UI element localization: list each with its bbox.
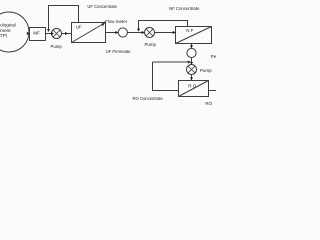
svg-text:MF: MF [33, 30, 40, 35]
svg-text:Permeate: Permeate [211, 54, 216, 59]
svg-text:RO: RO [205, 101, 212, 106]
svg-text:Biological: Biological [0, 22, 16, 27]
svg-text:NF Concentrate: NF Concentrate [169, 6, 200, 11]
svg-text:Pump: Pump [145, 42, 157, 47]
svg-text:UF Permeate: UF Permeate [106, 49, 132, 54]
svg-text:Pump: Pump [51, 44, 63, 49]
svg-text:Pump: Pump [200, 68, 212, 73]
svg-text:UF Concentrate: UF Concentrate [87, 4, 117, 9]
svg-text:R O: R O [188, 84, 197, 89]
svg-text:(WWTP): (WWTP) [0, 33, 8, 38]
svg-text:UF: UF [76, 25, 82, 30]
svg-text:RO Concentrate: RO Concentrate [133, 96, 164, 101]
svg-text:Flow meter: Flow meter [105, 19, 128, 24]
svg-text:N F: N F [186, 28, 194, 33]
